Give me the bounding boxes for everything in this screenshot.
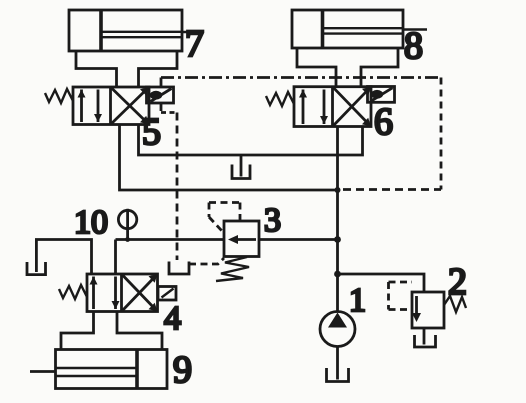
tank pump [327,347,349,382]
spring valve 4 [59,285,87,299]
spring valve 2 [444,296,466,312]
valve 6 [294,87,371,127]
wire valve 4 to cylinder 9 [61,312,162,350]
pressure gauge 10 [118,209,136,242]
tank T-line [232,155,250,179]
svg-text:1: 1 [349,282,366,319]
pilot solenoid valve 5 [147,87,174,103]
spring valve 3 [216,257,249,281]
wire valve 4 left port to tank [36,240,91,275]
cylinder 9 [30,350,167,389]
pump 1 [320,312,355,347]
junction P at y190 [335,187,341,193]
pilot drain dashed line valve 5 [176,113,179,261]
tank valve 2 [415,328,436,347]
svg-text:5: 5 [142,111,161,153]
svg-text:4: 4 [164,300,181,337]
pilot solenoid valve 6 [368,87,395,103]
relief valve 3 [224,221,259,257]
wire cylinder 8 ports to valve 6 [297,48,398,87]
cylinder 8 [292,10,427,48]
pilot stub valve 5 to enclosure [160,78,163,88]
pilot solenoid valve 4 [158,287,176,301]
pilot dashed loop valve 2 [389,282,413,310]
svg-text:9: 9 [173,349,192,391]
wire P main line pump to valve 6 [336,127,339,312]
tank pilot drain [169,262,189,275]
relief valve 2 [412,292,444,328]
svg-text:6: 6 [374,101,393,143]
junction P at y239 [334,236,341,243]
pilot dashed loop valve 3 [209,203,240,232]
valve 4 [87,274,158,312]
dashed drain to valve 3 [189,258,224,264]
cylinder 7 [69,10,203,51]
dash-dot enclosure box [161,78,441,190]
valve 5 [73,87,149,125]
wire P-line valve 5 supply [120,125,338,191]
svg-text:10: 10 [74,204,108,241]
junction P at y274 [334,271,341,278]
svg-text:7: 7 [185,23,204,65]
tank valve 4 [27,262,46,275]
svg-text:3: 3 [264,202,281,239]
svg-text:8: 8 [404,25,423,67]
pilot drain stub valve 5 [161,103,177,113]
wire cylinder 7 ports to valve 5 [76,51,177,87]
svg-text:2: 2 [448,261,467,303]
wire P branch to relief valve 2 [338,274,425,292]
spring valve 6 [266,92,294,106]
spring valve 5 [45,89,73,103]
wire T-line valve 5 to valve 6 [139,125,363,156]
wire P branch to valve 3 and valve 4 [116,240,338,275]
